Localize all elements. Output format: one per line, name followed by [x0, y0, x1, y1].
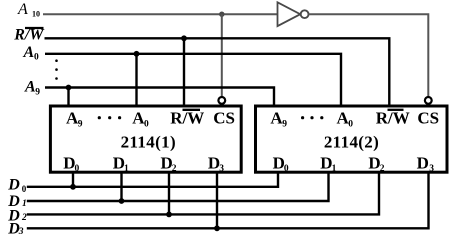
svg-text:3: 3 [219, 164, 224, 174]
wire bus D0 with elbow from 2114(2) pin [27, 172, 278, 187]
chip U1 ellipsis dots [98, 116, 121, 119]
svg-text:10: 10 [32, 10, 40, 19]
node junction D3 [214, 225, 220, 231]
node junction D1 [119, 198, 125, 204]
svg-text:R/W: R/W [170, 109, 204, 128]
svg-text:D: D [7, 177, 20, 194]
node junction A0 to 2114(1) [134, 51, 140, 57]
chip U1 pin labels top row [66, 109, 235, 130]
chip U2 ellipsis dots [301, 116, 323, 119]
wire D1 drop from 2114(1) [120, 172, 122, 201]
svg-text:1: 1 [22, 199, 27, 209]
label D3 (left) [7, 221, 24, 238]
svg-text:2114(1): 2114(1) [121, 132, 176, 151]
svg-text:D: D [417, 154, 429, 173]
svg-text:A: A [23, 44, 35, 61]
label R/W-bar (left) [13, 26, 45, 43]
wire R/W drop to 2114(1) [183, 38, 185, 106]
wire inverter output to CS of 2114(2) [309, 14, 429, 97]
chip U2 2114(2) box [256, 106, 448, 172]
chip U2 pin labels top row [270, 109, 439, 130]
label A9 (left) [24, 79, 40, 98]
wire A9 drop to 2114(1) [67, 88, 69, 107]
wire net A0 horizontal and elbow into 2114(2) [45, 54, 341, 106]
node junction D0 [70, 184, 76, 190]
svg-text:0: 0 [75, 164, 80, 174]
svg-text:9: 9 [78, 119, 83, 129]
svg-text:CS: CS [417, 109, 439, 128]
wire A10 drop to CS of 2114(1) [221, 14, 223, 97]
wire D2 drop from 2114(1) [168, 172, 170, 214]
svg-text:0: 0 [284, 164, 289, 174]
node junction A9 to 2114(1) [66, 85, 72, 91]
wire bus D1 with elbow from 2114(2) pin [27, 172, 329, 201]
wire bus D3 with elbow from 2114(2) pin [27, 172, 429, 228]
wire net A10 horizontal [43, 13, 278, 15]
svg-text:2: 2 [172, 164, 177, 174]
svg-text:2: 2 [380, 164, 385, 174]
svg-text:3: 3 [18, 227, 24, 237]
label A0 (left) [23, 44, 40, 62]
pin bubble CS 2114(2) [425, 97, 432, 104]
svg-text:2114(2): 2114(2) [324, 132, 379, 151]
pin bubble CS 2114(1) [218, 97, 225, 104]
svg-text:R/W: R/W [376, 109, 410, 128]
svg-text:0: 0 [144, 119, 149, 129]
node junction R/W to 2114(1) [181, 35, 187, 41]
node junction D2 [166, 212, 172, 218]
svg-text:2: 2 [21, 213, 27, 223]
svg-text:CS: CS [213, 109, 235, 128]
svg-text:A: A [17, 1, 28, 18]
svg-text:3: 3 [429, 164, 434, 174]
node junction A10 to CS1 [219, 12, 224, 17]
chip U1 pin labels bottom row [63, 154, 224, 174]
svg-text:A: A [24, 79, 36, 96]
label D0 (left) [7, 177, 27, 194]
wire net A9 horizontal and elbow into 2114(2) [45, 88, 274, 107]
label D2 (left) [7, 207, 27, 224]
svg-text:0: 0 [348, 119, 353, 129]
chip U1 2114(1) box [50, 106, 241, 172]
svg-text:1: 1 [332, 164, 337, 174]
svg-text:0: 0 [22, 184, 27, 194]
svg-text:1: 1 [124, 164, 129, 174]
svg-text:9: 9 [35, 87, 40, 97]
wire net R/W horizontal and elbow into 2114(2) [45, 38, 390, 106]
chip U2 pin labels bottom row [273, 154, 435, 174]
wire A0 drop to 2114(1) [135, 54, 137, 106]
address ellipsis dots (vertical) [55, 59, 58, 79]
label A10 [17, 1, 40, 19]
svg-text:9: 9 [282, 119, 287, 129]
svg-text:0: 0 [34, 53, 39, 63]
wire D3 drop from 2114(1) [216, 172, 218, 228]
inverter gate on A10 [278, 2, 309, 26]
wire bus D2 with elbow from 2114(2) pin [27, 172, 379, 214]
wire D0 drop from 2114(1) [72, 172, 74, 187]
label D1 (left) [7, 193, 26, 210]
